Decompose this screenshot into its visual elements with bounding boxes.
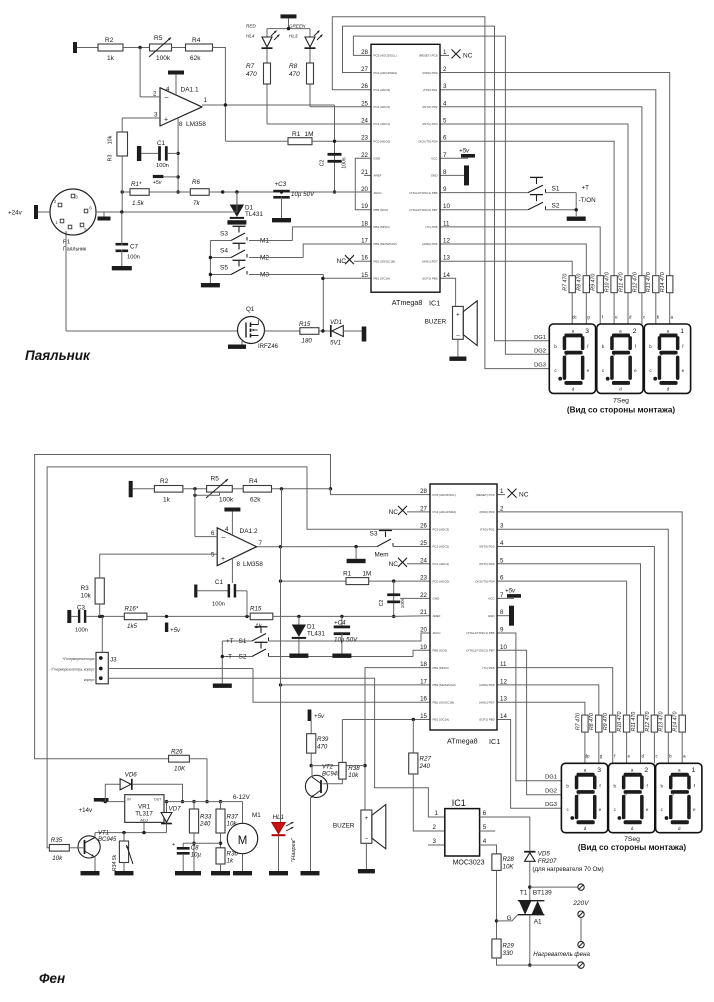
svg-text:12: 12	[443, 238, 450, 245]
svg-text:25: 25	[420, 540, 427, 547]
svg-text:(RXD) PD0: (RXD) PD0	[422, 71, 437, 75]
svg-text:(INT0) PD2: (INT0) PD2	[479, 545, 495, 549]
svg-text:(AIN0) PD6: (AIN0) PD6	[479, 683, 495, 687]
svg-text:470: 470	[317, 744, 328, 751]
svg-text:S1: S1	[239, 638, 247, 645]
svg-text:Mem: Mem	[375, 552, 389, 559]
svg-text:8: 8	[443, 169, 447, 176]
svg-text:7: 7	[259, 540, 263, 547]
svg-text:R39: R39	[317, 736, 329, 743]
svg-text:+: +	[221, 556, 225, 563]
svg-text:R15: R15	[299, 321, 311, 328]
svg-text:23: 23	[361, 135, 368, 142]
svg-text:2: 2	[500, 505, 504, 512]
svg-text:1k: 1k	[227, 858, 234, 865]
svg-text:9: 9	[500, 627, 504, 634]
svg-text:10k: 10k	[52, 855, 63, 862]
svg-text:PC5 (ADC5/SCL): PC5 (ADC5/SCL)	[433, 493, 456, 497]
svg-text:+5v: +5v	[153, 180, 162, 186]
svg-text:4: 4	[443, 100, 447, 107]
svg-text:IC1: IC1	[452, 798, 466, 808]
svg-text:240: 240	[199, 821, 211, 828]
svg-text:1: 1	[435, 810, 439, 817]
svg-text:9: 9	[443, 186, 447, 193]
svg-text:R7 470: R7 470	[575, 713, 581, 730]
svg-text:21: 21	[361, 169, 368, 176]
svg-text:19: 19	[361, 203, 368, 210]
svg-text:18: 18	[420, 661, 427, 668]
svg-text:17: 17	[361, 238, 368, 245]
svg-text:R5: R5	[154, 35, 163, 42]
svg-text:VD7: VD7	[169, 806, 182, 813]
svg-text:M: M	[238, 835, 248, 847]
svg-text:1: 1	[692, 767, 696, 774]
svg-text:NC: NC	[519, 492, 529, 499]
svg-text:R7 470: R7 470	[563, 274, 569, 291]
svg-text:+T: +T	[582, 185, 590, 192]
svg-text:NC: NC	[463, 52, 473, 59]
svg-text:(XTAL1/TOSC1) PB6: (XTAL1/TOSC1) PB6	[466, 631, 495, 635]
svg-text:220V: 220V	[572, 900, 589, 907]
svg-text:ATmega8: ATmega8	[392, 298, 423, 307]
svg-text:IC1: IC1	[489, 737, 500, 746]
svg-text:(XTAL2/TOSC2) PB7: (XTAL2/TOSC2) PB7	[466, 649, 495, 653]
svg-text:Паяльник: Паяльник	[25, 348, 91, 363]
svg-text:(TXD) PD1: (TXD) PD1	[480, 527, 495, 531]
svg-text:62k: 62k	[250, 497, 261, 504]
svg-text:10µ 50V: 10µ 50V	[334, 637, 358, 644]
svg-text:DA1.1: DA1.1	[181, 87, 199, 94]
svg-text:Нагреватель фена: Нагреватель фена	[533, 951, 590, 958]
svg-text:M1: M1	[252, 812, 261, 819]
svg-text:Q1: Q1	[246, 306, 255, 313]
svg-text:IC1: IC1	[429, 298, 440, 307]
svg-text:10K: 10K	[174, 766, 186, 773]
svg-text:RED: RED	[246, 24, 256, 29]
svg-text:R7: R7	[246, 63, 255, 70]
svg-text:(T1) PD5: (T1) PD5	[425, 225, 438, 229]
svg-text:62k: 62k	[190, 55, 201, 62]
svg-text:+T: +T	[226, 638, 234, 645]
svg-text:(ICP1) PB0: (ICP1) PB0	[422, 277, 438, 281]
svg-text:(AIN1) PD7: (AIN1) PD7	[479, 700, 495, 704]
svg-text:PC2 (ADC2): PC2 (ADC2)	[374, 105, 391, 109]
svg-text:4: 4	[225, 526, 229, 533]
svg-text:"Нагрев": "Нагрев"	[291, 837, 297, 862]
svg-text:R16*: R16*	[125, 606, 139, 613]
svg-text:22: 22	[420, 592, 427, 599]
svg-text:TL431: TL431	[307, 631, 325, 638]
svg-text:VD1: VD1	[330, 319, 342, 326]
svg-text:7: 7	[500, 592, 504, 599]
svg-text:+5v: +5v	[170, 627, 181, 634]
svg-text:VD5: VD5	[538, 851, 551, 858]
svg-text:10K: 10K	[503, 863, 515, 870]
svg-text:Паяльник: Паяльник	[63, 247, 87, 253]
svg-text:LM358: LM358	[243, 561, 263, 568]
svg-text:MOC3023: MOC3023	[453, 859, 485, 866]
svg-text:R3: R3	[81, 585, 89, 592]
svg-text:R3: R3	[108, 155, 114, 162]
svg-text:+: +	[456, 312, 460, 318]
svg-text:AVCC: AVCC	[433, 631, 442, 635]
svg-text:S2: S2	[552, 203, 560, 210]
svg-text:+5v: +5v	[505, 587, 516, 594]
svg-text:S5: S5	[220, 265, 228, 272]
svg-text:R2: R2	[160, 478, 169, 485]
svg-text:OUT: OUT	[154, 798, 162, 802]
svg-text:100n: 100n	[400, 597, 406, 608]
svg-text:PC3 (ADC3): PC3 (ADC3)	[433, 527, 450, 531]
svg-text:R35: R35	[51, 837, 63, 844]
svg-text:VT1: VT1	[98, 831, 109, 837]
svg-text:AREF: AREF	[374, 174, 382, 178]
svg-text:(ICP1) PB0: (ICP1) PB0	[479, 718, 495, 722]
svg-text:PC4 (ADC4/SDA): PC4 (ADC4/SDA)	[374, 71, 398, 75]
svg-text:C3: C3	[77, 605, 85, 612]
svg-text:+5v: +5v	[459, 147, 470, 154]
svg-text:PC3 (ADC3): PC3 (ADC3)	[374, 88, 391, 92]
svg-text:FR207: FR207	[538, 858, 557, 865]
svg-text:10k: 10k	[81, 593, 92, 600]
svg-text:100n: 100n	[156, 163, 169, 169]
svg-text:GND: GND	[488, 614, 496, 618]
svg-text:1: 1	[680, 328, 684, 335]
svg-text:(XTAL1/TOSC1) PB6: (XTAL1/TOSC1) PB6	[409, 191, 438, 195]
svg-text:P1: P1	[63, 240, 70, 246]
svg-text:R10 470: R10 470	[617, 712, 623, 732]
svg-text:+t°терморезистора: +t°терморезистора	[62, 657, 94, 661]
svg-text:100n: 100n	[342, 157, 348, 168]
svg-text:C1: C1	[157, 140, 166, 147]
svg-text:+C4: +C4	[334, 620, 346, 627]
svg-text:10: 10	[443, 203, 450, 210]
svg-text:21: 21	[420, 609, 427, 616]
svg-text:dp: dp	[585, 754, 590, 759]
svg-text:BUZER: BUZER	[333, 823, 355, 830]
svg-text:PB1 (OC1A): PB1 (OC1A)	[433, 718, 450, 722]
svg-text:R6: R6	[192, 179, 200, 186]
svg-text:R28: R28	[503, 856, 515, 863]
svg-text:ATmega8: ATmega8	[447, 737, 478, 746]
svg-text:16: 16	[361, 255, 368, 262]
svg-text:25: 25	[361, 100, 368, 107]
svg-text:PC4 (ADC4/SDA): PC4 (ADC4/SDA)	[433, 510, 457, 514]
svg-text:2: 2	[433, 824, 437, 831]
svg-text:+14v: +14v	[79, 807, 93, 814]
svg-text:6: 6	[443, 135, 447, 142]
svg-text:(Вид со стороны монтажа): (Вид со стороны монтажа)	[578, 843, 687, 852]
svg-text:26: 26	[361, 83, 368, 90]
svg-text:C2: C2	[320, 160, 326, 167]
svg-text:8: 8	[237, 561, 241, 568]
svg-text:4: 4	[500, 540, 504, 547]
svg-text:1k5: 1k5	[127, 623, 138, 630]
svg-text:R4: R4	[249, 478, 258, 485]
svg-text:1k: 1k	[163, 497, 171, 504]
svg-text:R9 470: R9 470	[591, 274, 597, 291]
svg-text:S2: S2	[239, 654, 247, 661]
svg-text:100k: 100k	[156, 55, 171, 62]
svg-text:PC5 (ADC5/SCL): PC5 (ADC5/SCL)	[374, 54, 397, 58]
svg-text:19: 19	[420, 644, 427, 651]
svg-text:LM358: LM358	[186, 121, 206, 128]
svg-text:R29: R29	[503, 943, 515, 950]
svg-text:DG3: DG3	[545, 802, 557, 808]
svg-text:100n: 100n	[127, 255, 140, 261]
svg-text:3: 3	[585, 328, 589, 335]
svg-text:R11 470: R11 470	[631, 712, 637, 732]
svg-text:S4: S4	[220, 248, 228, 255]
svg-text:R1*: R1*	[131, 181, 142, 188]
svg-text:100k: 100k	[219, 497, 234, 504]
svg-text:12: 12	[500, 678, 507, 685]
svg-text:2: 2	[153, 91, 157, 98]
svg-text:26: 26	[420, 523, 427, 530]
svg-text:13: 13	[443, 255, 450, 262]
svg-text:1: 1	[500, 488, 504, 495]
svg-text:PB4 (MISO): PB4 (MISO)	[374, 225, 390, 229]
svg-text:PB5 (SCK): PB5 (SCK)	[374, 208, 389, 212]
svg-text:23: 23	[420, 575, 427, 582]
svg-text:(INT1) PD3: (INT1) PD3	[479, 562, 495, 566]
svg-text:A1: A1	[534, 919, 542, 926]
svg-text:240: 240	[419, 763, 431, 770]
svg-text:5: 5	[500, 557, 504, 564]
svg-text:17: 17	[420, 678, 427, 685]
svg-text:3: 3	[443, 83, 447, 90]
svg-text:7k: 7k	[193, 200, 200, 207]
svg-text:PC2 (ADC2): PC2 (ADC2)	[433, 545, 450, 549]
svg-text:6-12V: 6-12V	[233, 794, 251, 801]
svg-text:GND: GND	[431, 174, 439, 178]
svg-text:(INT1) PD3: (INT1) PD3	[422, 122, 438, 126]
svg-text:GND: GND	[374, 157, 382, 161]
svg-text:22: 22	[361, 152, 368, 159]
svg-text:R13 470: R13 470	[659, 712, 665, 732]
svg-text:VR1: VR1	[138, 804, 151, 811]
svg-text:VCC: VCC	[431, 157, 438, 161]
svg-text:NC: NC	[337, 258, 347, 265]
svg-text:(T1) PD5: (T1) PD5	[482, 666, 495, 670]
svg-text:GND: GND	[433, 597, 441, 601]
svg-text:10µ: 10µ	[191, 853, 202, 859]
svg-text:R8 470: R8 470	[589, 713, 595, 730]
svg-text:R10 470: R10 470	[605, 272, 611, 292]
svg-text:(XTAL2/TOSC2) PB7: (XTAL2/TOSC2) PB7	[409, 208, 438, 212]
svg-text:R8: R8	[289, 63, 298, 70]
svg-text:+: +	[172, 842, 175, 848]
svg-text:(Вид со стороны монтажа): (Вид со стороны монтажа)	[567, 406, 676, 415]
svg-text:4: 4	[166, 86, 170, 93]
svg-text:5: 5	[443, 118, 447, 125]
svg-text:(XCK/T0) PD4: (XCK/T0) PD4	[418, 139, 438, 143]
svg-text:PB2 (SS/OC1B): PB2 (SS/OC1B)	[433, 700, 455, 704]
svg-text:R8 470: R8 470	[577, 274, 583, 291]
svg-text:24: 24	[361, 118, 368, 125]
svg-text:1: 1	[443, 49, 447, 56]
svg-text:R1: R1	[292, 131, 301, 138]
svg-text:5: 5	[211, 552, 215, 559]
svg-text:28: 28	[420, 488, 427, 495]
svg-text:5V1: 5V1	[330, 340, 341, 347]
svg-text:DG2: DG2	[534, 348, 546, 354]
svg-text:24: 24	[420, 557, 427, 564]
svg-text:+24v: +24v	[8, 210, 23, 217]
svg-text:3: 3	[154, 112, 158, 119]
svg-text:R12 470: R12 470	[645, 712, 651, 732]
svg-text:3: 3	[500, 523, 504, 530]
svg-text:Фен: Фен	[39, 971, 65, 986]
svg-text:VD6: VD6	[125, 772, 138, 779]
svg-text:16: 16	[420, 696, 427, 703]
svg-text:NC: NC	[389, 561, 399, 568]
svg-text:корпус: корпус	[84, 678, 95, 682]
svg-text:–: –	[165, 95, 169, 102]
svg-text:C8: C8	[191, 846, 199, 852]
svg-text:18: 18	[361, 220, 368, 227]
svg-text:R14 470: R14 470	[660, 272, 666, 292]
svg-text:3: 3	[433, 838, 437, 845]
svg-text:IN: IN	[127, 798, 131, 802]
svg-text:(RXD) PD0: (RXD) PD0	[479, 510, 494, 514]
svg-text:2: 2	[443, 66, 447, 73]
svg-text:ADJ: ADJ	[140, 817, 148, 822]
svg-text:D1: D1	[307, 624, 316, 631]
svg-text:10µ 50V: 10µ 50V	[291, 191, 315, 198]
svg-text:DG1: DG1	[534, 335, 546, 341]
svg-text:NC: NC	[389, 509, 399, 516]
svg-text:100n: 100n	[75, 628, 88, 634]
svg-text:R11 470: R11 470	[618, 272, 624, 292]
svg-text:470: 470	[246, 71, 257, 78]
svg-text:IRFZ46: IRFZ46	[258, 344, 279, 350]
svg-text:330: 330	[503, 950, 514, 957]
svg-text:PC1 (ADC1): PC1 (ADC1)	[433, 562, 450, 566]
svg-text:-T: -T	[226, 654, 232, 661]
svg-text:(TXD) PD1: (TXD) PD1	[423, 88, 438, 92]
svg-text:20: 20	[420, 627, 427, 634]
svg-text:R27: R27	[420, 756, 432, 763]
svg-text:1k: 1k	[255, 623, 262, 630]
svg-text:11: 11	[500, 661, 507, 668]
svg-text:R37: R37	[227, 814, 239, 821]
svg-text:14: 14	[443, 272, 450, 279]
svg-text:27: 27	[420, 505, 427, 512]
svg-text:-T/ON: -T/ON	[579, 197, 597, 204]
svg-text:T1: T1	[520, 890, 528, 897]
svg-text:DG2: DG2	[545, 789, 557, 795]
svg-text:R13 470: R13 470	[646, 272, 652, 292]
svg-text:C7: C7	[130, 244, 138, 251]
svg-text:DA1.2: DA1.2	[240, 528, 258, 535]
svg-text:BUZER: BUZER	[425, 318, 447, 325]
svg-text:(INT0) PD2: (INT0) PD2	[422, 105, 438, 109]
svg-text:8: 8	[500, 609, 504, 616]
svg-text:R34 5k: R34 5k	[112, 854, 118, 871]
svg-text:1: 1	[204, 97, 208, 104]
svg-text:20: 20	[361, 186, 368, 193]
svg-text:1M: 1M	[363, 571, 372, 578]
svg-text:VCC: VCC	[488, 597, 495, 601]
svg-text:PB5 (SCK): PB5 (SCK)	[433, 649, 448, 653]
svg-text:(для нагревателя 70 Ом): (для нагревателя 70 Ом)	[532, 866, 603, 873]
svg-text:-t°терморезистора, корпус: -t°терморезистора, корпус	[50, 668, 94, 672]
svg-text:100n: 100n	[212, 602, 225, 608]
svg-text:TL431: TL431	[245, 211, 263, 218]
svg-text:HL4: HL4	[246, 34, 255, 39]
svg-text:PB1 (OC1A): PB1 (OC1A)	[374, 277, 391, 281]
svg-text:14: 14	[500, 713, 507, 720]
svg-text:1.5k: 1.5k	[132, 200, 145, 207]
svg-text:S3: S3	[220, 231, 228, 238]
svg-text:5: 5	[483, 824, 487, 831]
svg-text:R33: R33	[200, 814, 212, 821]
svg-text:1M: 1M	[305, 131, 314, 138]
svg-text:15: 15	[420, 713, 427, 720]
svg-text:(XCK/T0) PD4: (XCK/T0) PD4	[475, 579, 495, 583]
svg-text:10: 10	[500, 644, 507, 651]
svg-text:2: 2	[644, 767, 648, 774]
svg-text:11: 11	[443, 220, 450, 227]
svg-text:R9 470: R9 470	[603, 713, 609, 730]
svg-text:DG1: DG1	[545, 775, 557, 781]
svg-text:S1: S1	[552, 186, 560, 193]
svg-text:1k: 1k	[107, 55, 115, 62]
svg-text:R14 470: R14 470	[673, 712, 679, 732]
svg-text:R1: R1	[343, 571, 352, 578]
svg-text:7Seg: 7Seg	[613, 398, 629, 405]
svg-text:7: 7	[443, 152, 447, 159]
svg-text:BT139: BT139	[533, 890, 552, 897]
svg-text:2: 2	[633, 328, 637, 335]
svg-text:R4: R4	[192, 37, 201, 44]
svg-text:6: 6	[211, 530, 215, 537]
svg-text:PC0 (ADC0): PC0 (ADC0)	[374, 139, 391, 143]
svg-text:J3: J3	[110, 657, 117, 664]
svg-text:PB3 (MOSI/OC2): PB3 (MOSI/OC2)	[433, 683, 456, 687]
svg-text:(RESET) PC6: (RESET) PC6	[476, 493, 495, 497]
svg-text:HL1: HL1	[273, 814, 284, 821]
svg-text:PB4 (MISO): PB4 (MISO)	[433, 666, 449, 670]
svg-text:R26: R26	[171, 749, 183, 756]
svg-text:28: 28	[361, 49, 368, 56]
svg-text:GREEN: GREEN	[289, 24, 306, 29]
svg-text:8: 8	[179, 121, 183, 128]
svg-text:S3: S3	[370, 531, 378, 538]
svg-text:C1: C1	[215, 579, 224, 586]
svg-text:HL3: HL3	[289, 34, 298, 39]
svg-text:+5v: +5v	[314, 713, 325, 720]
svg-text:(AIN0) PD6: (AIN0) PD6	[422, 242, 438, 246]
svg-text:R15: R15	[250, 606, 262, 613]
svg-text:6: 6	[500, 575, 504, 582]
svg-text:R2: R2	[105, 37, 114, 44]
svg-text:DG3: DG3	[534, 363, 546, 369]
svg-text:dc: dc	[572, 315, 577, 320]
svg-text:+C3: +C3	[275, 181, 287, 188]
svg-text:PB2 (SS/OC1B): PB2 (SS/OC1B)	[374, 259, 396, 263]
svg-text:13: 13	[500, 696, 507, 703]
svg-text:(RESET) PC6: (RESET) PC6	[419, 54, 438, 58]
svg-text:PC1 (ADC1): PC1 (ADC1)	[374, 122, 391, 126]
svg-text:180: 180	[302, 338, 313, 345]
svg-text:AREF: AREF	[433, 614, 441, 618]
svg-text:VT2: VT2	[322, 765, 334, 771]
svg-text:R38: R38	[348, 765, 360, 772]
svg-text:(AIN1) PD7: (AIN1) PD7	[422, 259, 438, 263]
svg-text:15: 15	[361, 272, 368, 279]
